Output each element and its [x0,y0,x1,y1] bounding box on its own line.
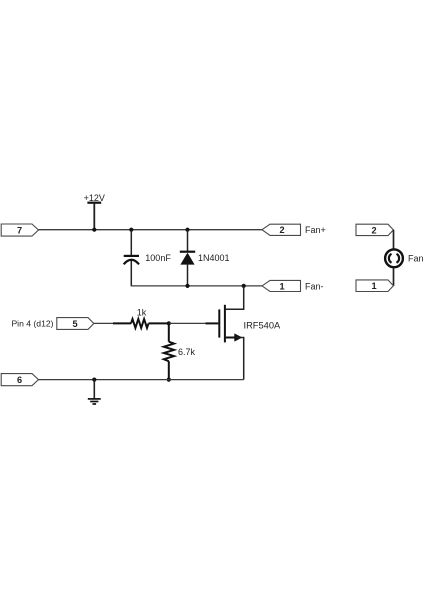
wire bottom rail of cap/diode to Fan- flag [131,284,262,287]
svg-text:5: 5 [72,319,77,329]
wire motor to fan pin1 [393,268,395,286]
capacitor C 100nF [124,230,172,286]
svg-text:6.7k: 6.7k [178,347,196,357]
wire drain connection [226,286,244,309]
node junction diode bottom [185,284,189,288]
svg-text:2: 2 [371,225,376,235]
svg-text:1: 1 [371,281,376,291]
wire top rail from pin 7 to Fan+ flag [39,229,263,231]
wire junction to gate [169,322,206,324]
svg-text:Fan+: Fan+ [305,225,326,235]
power +12V [84,193,105,230]
node junction gate/divider [167,321,171,325]
svg-text:1k: 1k [137,307,147,317]
node junction ground [92,378,96,382]
resistor R 1k [113,307,169,328]
svg-text:Fan-: Fan- [305,281,324,291]
svg-text:IRF540A: IRF540A [244,320,281,330]
connector pin 2 Fan+ [262,224,326,235]
wire source to bottom rail [236,338,244,380]
svg-text:1N4001: 1N4001 [198,253,230,263]
connector fan pin 1 [356,280,393,292]
svg-text:7: 7 [17,225,22,235]
connector pin 1 Fan- [262,280,324,291]
connector pin 6 [1,374,38,386]
svg-text:Fan: Fan [408,253,424,263]
fan motor M [385,249,423,267]
wire pin5 to resistor 1k [94,322,113,324]
node junction 6.7k bottom [167,378,171,382]
wire fan pin2 to motor [393,230,395,249]
ground [88,380,101,404]
connector pin 7 [1,224,38,236]
svg-text:6: 6 [17,375,22,385]
node junction capacitor top [129,228,133,232]
wire bottom rail pin6 to source [39,379,244,381]
svg-text:2: 2 [279,225,284,235]
svg-text:+12V: +12V [84,193,105,203]
svg-text:100nF: 100nF [145,253,171,263]
svg-text:1: 1 [279,281,284,291]
resistor R 6.7k [164,323,196,379]
node junction diode top [185,228,189,232]
diode D 1N4001 [180,230,230,286]
node junction +12V on top rail [92,228,96,232]
connector pin 5 [57,318,94,330]
node junction drain tap [242,284,246,288]
transistor Q IRF540A [205,305,281,343]
connector fan pin 2 [356,224,393,235]
svg-text:Pin 4 (d12): Pin 4 (d12) [11,319,53,329]
